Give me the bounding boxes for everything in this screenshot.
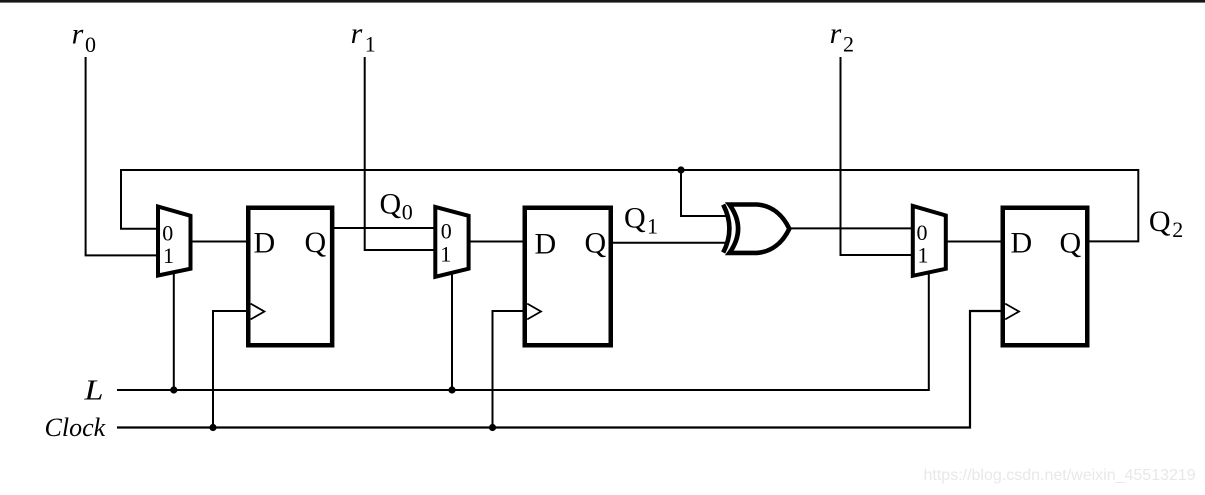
- svg-text:Q: Q: [1060, 226, 1082, 259]
- wire mux M3 output to FF3 D: [946, 241, 1003, 243]
- svg-text:L: L: [83, 375, 103, 407]
- input label r2: [830, 17, 854, 57]
- svg-text:r: r: [72, 18, 84, 51]
- svg-text:Q: Q: [1149, 205, 1171, 238]
- svg-text:1: 1: [440, 242, 451, 267]
- wire r2 to mux M3 input 1: [841, 57, 913, 255]
- svg-text:Q: Q: [585, 227, 607, 260]
- wire mux M1 select to L rail: [173, 272, 175, 391]
- svg-text:D: D: [1011, 227, 1033, 260]
- svg-text:Clock: Clock: [45, 413, 106, 442]
- FF2 clock input wedge: [527, 304, 541, 320]
- junction FF2 clock on Clock rail: [489, 424, 496, 431]
- D flip-flop FF3: [1003, 208, 1088, 346]
- wire Clock to FF2 clock: [493, 311, 525, 428]
- wire mux M2 select to L rail: [451, 273, 453, 391]
- D flip-flop FF1: [248, 208, 332, 346]
- svg-text:0: 0: [402, 199, 413, 224]
- mux M2: [435, 207, 468, 277]
- svg-text:0: 0: [917, 220, 928, 245]
- svg-text:1: 1: [647, 214, 658, 239]
- svg-text:r: r: [830, 17, 842, 50]
- svg-text:0: 0: [85, 32, 96, 57]
- svg-text:1: 1: [918, 243, 929, 268]
- junction FF1 clock on Clock rail: [209, 424, 216, 431]
- svg-text:1: 1: [365, 32, 376, 57]
- Clock rail wire turning up to FF3 clock: [117, 311, 1003, 428]
- node label Q2: [1149, 205, 1183, 242]
- wire Q2 feedback from FF3 Q through top rail to mux M1 input 0: [121, 170, 1138, 241]
- svg-text:1: 1: [163, 243, 174, 268]
- input label r1: [351, 17, 376, 57]
- junction on feedback rail: [677, 166, 684, 173]
- wire r0 to mux M1 input 1: [86, 57, 158, 255]
- mux M3: [913, 206, 946, 276]
- svg-text:Q: Q: [380, 187, 402, 220]
- wire XOR output to mux M3 input 0: [789, 227, 913, 229]
- XOR gate: [723, 205, 789, 253]
- L rail wire turning up to mux M3 select: [117, 272, 929, 390]
- svg-text:2: 2: [843, 32, 854, 57]
- svg-text:D: D: [535, 227, 557, 260]
- mux M1: [158, 207, 191, 276]
- svg-text:2: 2: [1172, 217, 1183, 242]
- node label Q1: [624, 202, 658, 239]
- wire r1 to mux M2 input 1: [365, 57, 435, 250]
- input label r0: [72, 18, 96, 58]
- wire Clock to FF1 clock: [213, 311, 248, 428]
- FF3 clock input wedge: [1005, 304, 1019, 320]
- svg-text:r: r: [351, 17, 363, 50]
- D flip-flop FF2: [525, 208, 611, 346]
- junction mux M1 select on L rail: [170, 386, 177, 393]
- FF1 clock input wedge: [251, 304, 265, 320]
- wire mux M1 output to FF1 D: [191, 241, 249, 243]
- svg-text:D: D: [254, 226, 276, 259]
- svg-text:0: 0: [162, 221, 173, 246]
- svg-text:https://blog.csdn.net/weixin_4: https://blog.csdn.net/weixin_45513219: [924, 467, 1196, 484]
- wire mux M2 output to FF2 D: [469, 241, 525, 243]
- node label Q0: [380, 187, 413, 224]
- junction mux M2 select on L rail: [448, 386, 455, 393]
- svg-text:Q: Q: [624, 202, 646, 235]
- svg-text:0: 0: [441, 219, 452, 244]
- svg-text:Q: Q: [305, 226, 327, 259]
- wire FF2 Q (net Q1) to XOR lower input: [613, 242, 729, 244]
- wire FF1 Q (net Q0) to mux M2 input 0: [334, 227, 435, 229]
- wire feedback junction to XOR upper input: [681, 170, 728, 216]
